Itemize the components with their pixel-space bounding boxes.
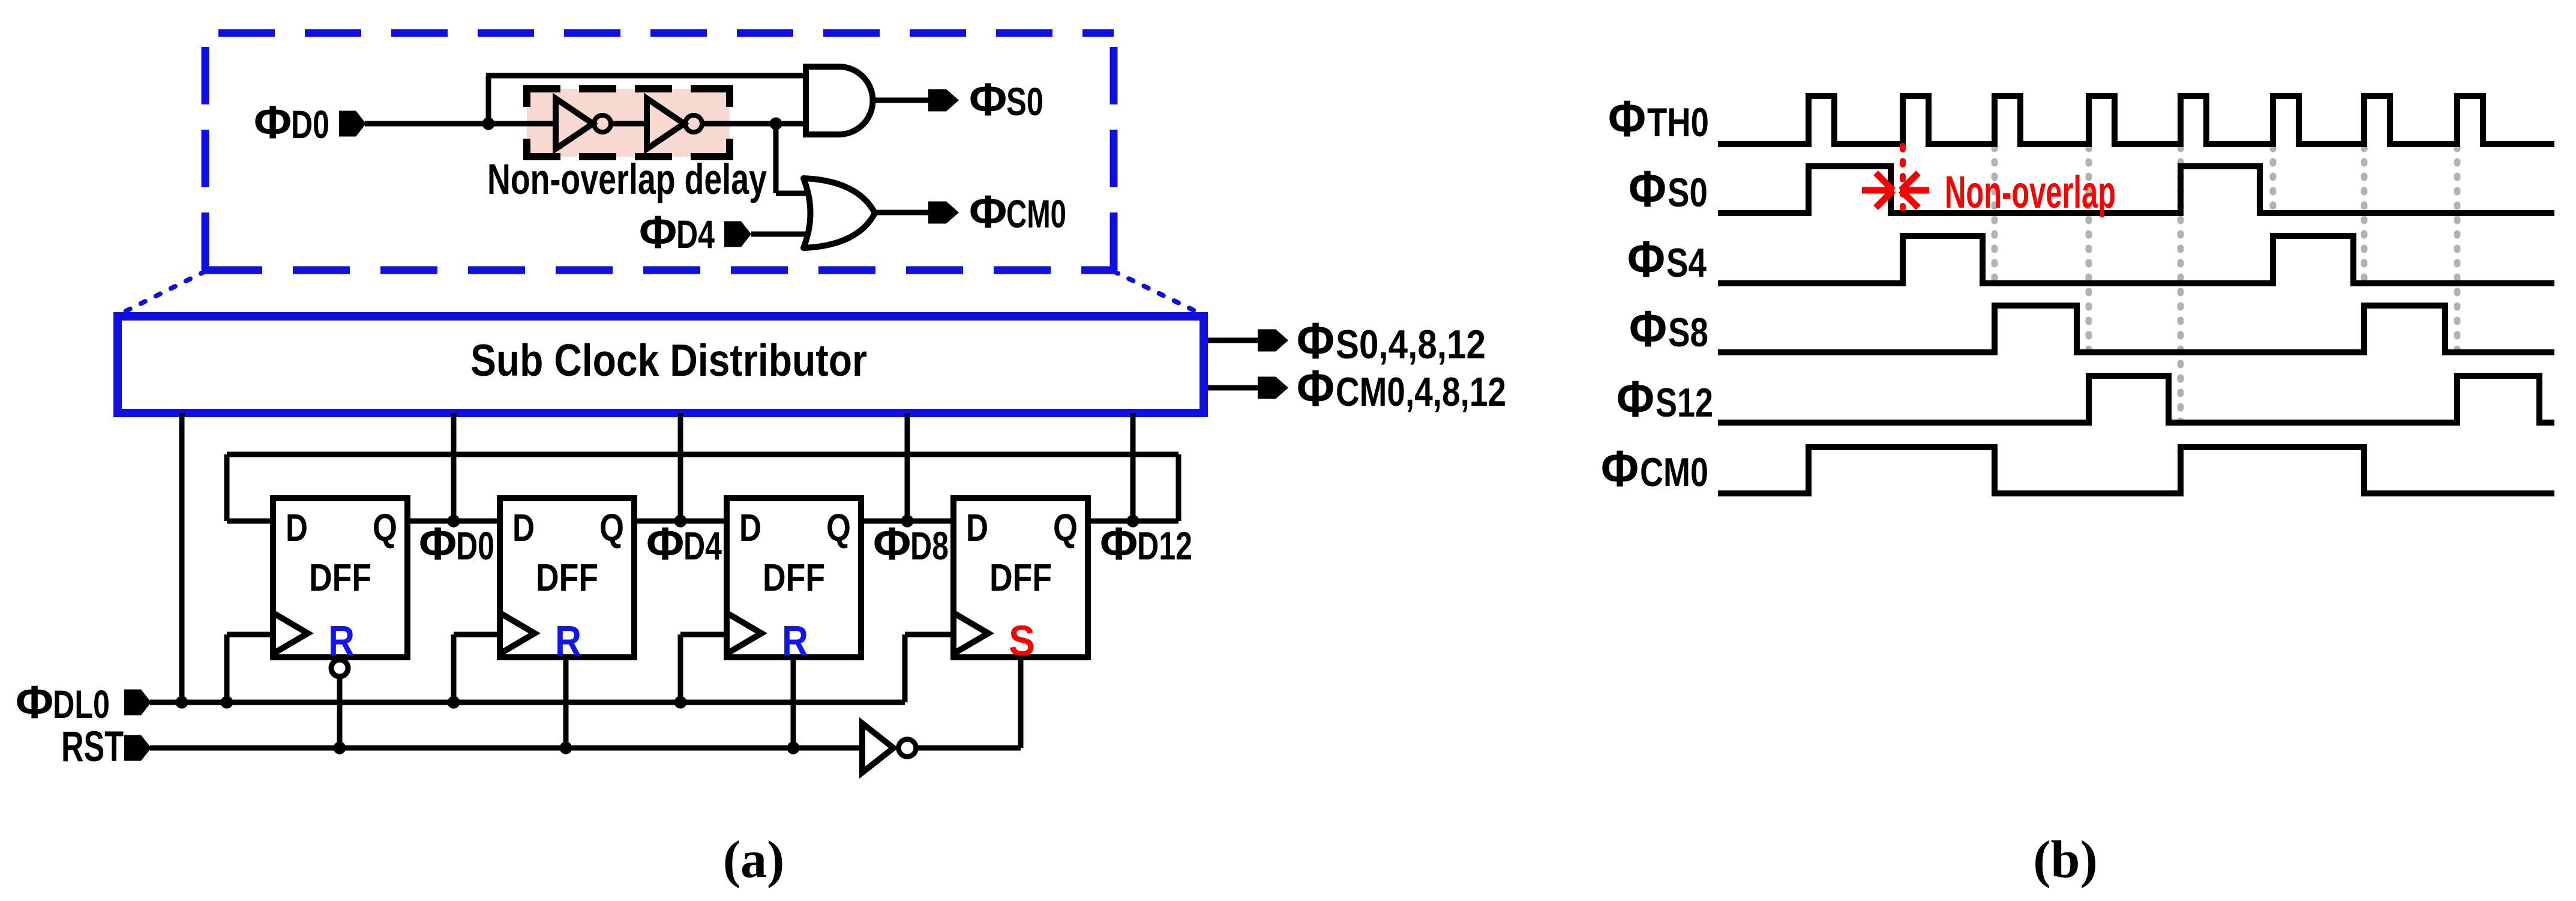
D flip-flop U7 (DFF3) [727, 498, 861, 665]
waveform PhiS4 [1718, 236, 2554, 283]
node B junction after delay [770, 118, 782, 130]
waveform PhiCM0 [1718, 447, 2554, 493]
terminal PhiS0 output [928, 89, 959, 112]
wire D input DFF1 [227, 519, 273, 524]
label RST [61, 723, 124, 771]
label node PhiD8 [873, 518, 949, 570]
svg-text:DL0: DL0 [53, 682, 110, 726]
svg-text:Φ: Φ [1629, 301, 1667, 358]
wire Q2 to D3 [634, 519, 727, 524]
wire feedback rail left down [224, 454, 230, 521]
D flip-flop U5 (DFF1) [273, 498, 407, 665]
wire drop PhiD8 [905, 413, 910, 521]
svg-text:Φ: Φ [1601, 441, 1639, 498]
label PhiS4 [1627, 231, 1707, 288]
label PhiCM0 [1601, 441, 1708, 498]
waveform PhiS12 [1718, 376, 2554, 423]
dotted connector right [1114, 271, 1202, 315]
Sub Clock Distributor box [118, 316, 1204, 413]
terminal PhiCM out [1258, 377, 1288, 399]
wire feedback rail right down [1176, 454, 1181, 521]
svg-text:D: D [512, 506, 535, 549]
label Non-overlap [1945, 167, 2116, 218]
svg-text:RST: RST [61, 723, 124, 771]
svg-text:D4: D4 [676, 212, 715, 256]
wire PhiDL0 rail [150, 700, 905, 705]
svg-text:Q: Q [373, 506, 397, 549]
wire RST rail [150, 746, 862, 751]
svg-text:Φ: Φ [646, 518, 684, 570]
svg-text:TH0: TH0 [1647, 100, 1709, 145]
wire PhiD4 to OR [751, 232, 819, 237]
wire Q3 to D4 [861, 519, 953, 524]
node PhiD4 [674, 515, 687, 528]
label Non-overlap delay [487, 156, 767, 203]
gray dashed marker 2 [2086, 147, 2092, 354]
svg-text:D: D [966, 506, 988, 549]
wire inverter2 to node B [702, 121, 776, 127]
wire R1 to RST [337, 678, 343, 748]
wire R3 to RST [791, 657, 796, 748]
wire PhiD0 input [365, 121, 488, 127]
waveform PhiS0 [1718, 166, 2554, 213]
wire OR output [871, 210, 929, 215]
svg-text:Φ: Φ [1608, 91, 1646, 148]
label PhiS12 [1617, 371, 1713, 428]
gray dashed marker 3 [2178, 147, 2184, 424]
svg-text:Φ: Φ [1629, 161, 1666, 218]
svg-text:Φ: Φ [1297, 360, 1335, 417]
wire Q1 to D2 [407, 519, 500, 524]
node RST-R1 [334, 742, 346, 755]
svg-text:Φ: Φ [639, 206, 677, 258]
reset bubble DFF1 [331, 660, 348, 677]
wire R2 to RST [563, 657, 569, 748]
svg-text:D0: D0 [291, 102, 329, 146]
svg-text:S0,4,8,12: S0,4,8,12 [1336, 322, 1486, 367]
label PhiDL0 [16, 677, 110, 728]
node DL0-ck2 [448, 696, 460, 709]
svg-text:D: D [286, 506, 308, 549]
terminal RST [124, 735, 151, 761]
label PhiCM0,4,8,12 [1297, 360, 1506, 417]
svg-text:D8: D8 [910, 523, 949, 568]
label node PhiD12 [1100, 518, 1192, 570]
label PhiS0 [969, 74, 1043, 125]
terminal PhiS out [1258, 330, 1288, 352]
D flip-flop U6 (DFF2) [500, 498, 634, 665]
svg-text:Φ: Φ [1100, 518, 1138, 570]
red arrow left [1901, 173, 1929, 208]
label node PhiD4 [646, 518, 722, 570]
svg-text:DFF: DFF [989, 556, 1052, 599]
gray dashed marker 5 [2361, 147, 2368, 285]
svg-text:S8: S8 [1668, 310, 1708, 355]
svg-text:Sub Clock Distributor: Sub Clock Distributor [470, 335, 867, 385]
wire delay chain segment 1 [488, 121, 556, 127]
gray dashed marker 1 [1992, 147, 1998, 285]
svg-text:Non-overlap: Non-overlap [1945, 167, 2116, 218]
inverter U2 [647, 98, 702, 149]
label PhiD0 [254, 97, 329, 148]
OR gate U4 [803, 178, 875, 248]
wire clock DFF1 [227, 634, 273, 702]
node DL0-drop [176, 696, 188, 709]
svg-text:S0: S0 [1006, 79, 1043, 124]
svg-text:D: D [739, 506, 761, 549]
svg-text:Φ: Φ [873, 518, 911, 570]
caption (a) [723, 831, 785, 889]
red dashed marker [1900, 146, 1906, 208]
wire clock DFF2 [454, 634, 500, 702]
wire node B down to OR [776, 124, 819, 193]
svg-text:CM0: CM0 [1006, 191, 1066, 236]
label PhiS0,4,8,12 [1297, 313, 1486, 370]
node PhiD8 [901, 515, 914, 528]
node RST-R2 [560, 742, 572, 755]
dotted connector left [119, 271, 205, 315]
red arrow right [1862, 173, 1893, 208]
svg-text:DFF: DFF [763, 556, 825, 599]
wire node B to AND [776, 121, 808, 127]
terminal PhiD4 [724, 221, 751, 247]
node DL0-ck1 [221, 696, 233, 709]
svg-text:Φ: Φ [969, 186, 1007, 238]
label PhiD4 [639, 206, 715, 258]
label Sub Clock Distributor [470, 335, 867, 385]
svg-text:S4: S4 [1666, 240, 1707, 286]
wire clock DFF3 [680, 634, 727, 702]
svg-text:S0: S0 [1668, 170, 1708, 215]
inverter U9 [862, 723, 916, 773]
svg-text:D0: D0 [456, 523, 494, 568]
wire distributor output 2 [1208, 385, 1258, 391]
node PhiD0 [448, 515, 460, 528]
waveform PhiS8 [1718, 306, 2554, 352]
label PhiCM0 [969, 186, 1066, 238]
svg-text:(a): (a) [723, 831, 785, 889]
terminal PhiDL0 [124, 690, 151, 716]
svg-text:D12: D12 [1137, 523, 1192, 568]
gray dashed marker 6 [2454, 147, 2461, 354]
svg-text:Q: Q [599, 506, 624, 549]
wire drop to DL0 rail [179, 413, 185, 702]
node A junction on PhiD0 [482, 118, 495, 130]
terminal PhiD0 [339, 111, 366, 137]
svg-text:DFF: DFF [309, 556, 371, 599]
wire feedback rail top [227, 452, 1178, 457]
svg-text:(b): (b) [2033, 831, 2098, 889]
svg-text:D4: D4 [683, 523, 722, 568]
svg-text:Φ: Φ [1617, 371, 1654, 428]
svg-text:Φ: Φ [254, 97, 292, 148]
wire distributor output 1 [1208, 338, 1258, 343]
wire between inverters [611, 121, 647, 127]
caption (b) [2033, 831, 2098, 889]
svg-text:DFF: DFF [536, 556, 598, 599]
wire drop PhiD0 [451, 413, 457, 521]
svg-text:Φ: Φ [16, 677, 53, 728]
label PhiTH0 [1608, 91, 1709, 148]
label PhiS8 [1629, 301, 1708, 358]
AND gate U3 [806, 67, 873, 134]
pink delay box [523, 85, 733, 160]
waveform PhiTH0 [1718, 96, 2554, 144]
svg-text:CM0: CM0 [1640, 450, 1708, 495]
label node PhiD0 [419, 518, 494, 570]
svg-text:S12: S12 [1656, 380, 1713, 426]
wire drop PhiD4 [678, 413, 683, 521]
node RST-R3 [787, 742, 800, 755]
svg-text:CM0,4,8,12: CM0,4,8,12 [1336, 369, 1506, 415]
node PhiD12 [1127, 515, 1139, 528]
svg-text:Q: Q [1053, 506, 1078, 549]
svg-text:Q: Q [826, 506, 851, 549]
wire feedback up [486, 76, 808, 124]
node DL0-ck3 [674, 696, 687, 709]
svg-text:Non-overlap delay: Non-overlap delay [487, 156, 767, 203]
terminal PhiCM0 output [928, 202, 959, 224]
dashed blue detail box [205, 33, 1114, 270]
gray dashed marker 4 [2270, 147, 2277, 214]
svg-text:Φ: Φ [419, 518, 457, 570]
inverter U1 [556, 98, 611, 149]
wire S4 from inverter [917, 656, 1021, 748]
wire drop PhiD12 [1130, 413, 1136, 521]
label PhiS0 [1629, 161, 1708, 218]
svg-text:Φ: Φ [1627, 231, 1665, 288]
wire clock DFF4 [905, 634, 953, 702]
svg-text:Φ: Φ [969, 74, 1007, 125]
wire AND output [871, 98, 929, 103]
D flip-flop U8 (DFF4) [953, 498, 1088, 665]
wire Q4 to feedback [1088, 519, 1178, 524]
